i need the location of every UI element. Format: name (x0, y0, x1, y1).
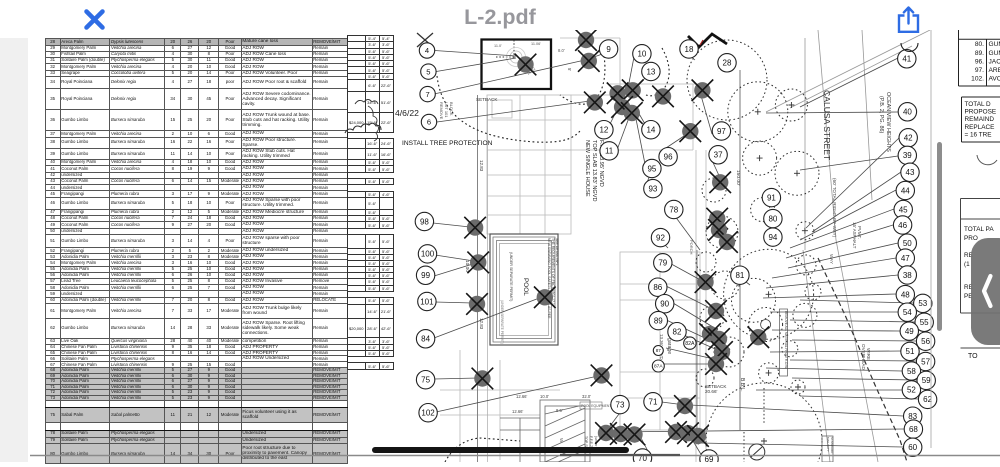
canopy (724, 249, 814, 339)
pool equip box (580, 402, 602, 409)
svg-text:68: 68 (909, 425, 918, 434)
canopy (791, 380, 805, 394)
tree tag 90 (656, 295, 674, 313)
tree tag 39 (898, 146, 916, 164)
removed tree (578, 32, 594, 48)
tree tag 70 (633, 449, 651, 467)
tree tag 60 (904, 438, 922, 456)
svg-text:TOTAL PA: TOTAL PA (964, 226, 994, 233)
property line east (739, 70, 741, 430)
svg-text:81: 81 (735, 271, 744, 280)
svg-text:87A: 87A (654, 364, 663, 370)
svg-text:84: 84 (421, 335, 430, 344)
canopy (775, 151, 819, 195)
pool outer (490, 234, 558, 345)
svg-text:82A: 82A (685, 341, 695, 347)
svg-text:89: 89 (654, 316, 663, 325)
canopy (700, 306, 724, 330)
svg-text:60: 60 (908, 443, 917, 452)
svg-text:96.: 96. (975, 58, 984, 65)
close button X (82, 7, 107, 32)
svg-text:REMOVE ALL MATERIAL FROM R.O.W: REMOVE ALL MATERIAL FROM R.O.W. (784, 311, 788, 369)
tree tag 99 (416, 266, 434, 284)
removed tree (690, 428, 706, 444)
svg-text:REMAIND: REMAIND (965, 116, 995, 123)
svg-text:38: 38 (903, 271, 912, 280)
svg-text:90: 90 (660, 300, 669, 309)
tree tag 94 (764, 228, 782, 246)
svg-text:4: 4 (425, 46, 429, 55)
svg-text:28: 28 (723, 59, 732, 68)
tree tag 5 (421, 64, 436, 79)
svg-text:7: 7 (425, 90, 429, 99)
top bar (0, 0, 1000, 38)
removed tree (708, 356, 724, 372)
tree tag 98 (415, 212, 433, 230)
tree tag 91 (762, 188, 780, 206)
tree tag 81 (731, 266, 749, 284)
tree tag 89 (649, 311, 667, 329)
row edge (803, 38, 830, 462)
svg-text:20.66': 20.66' (705, 389, 717, 394)
svg-text:93: 93 (648, 184, 657, 193)
tree tag 52 (902, 381, 920, 399)
svg-text:(P.B. 2, PG. 86): (P.B. 2, PG. 86) (878, 96, 884, 134)
svg-text:(UNDER SEPARATE PERMIT): (UNDER SEPARATE PERMIT) (500, 300, 504, 344)
tree tag 44 (896, 181, 914, 199)
tree tag 40 (898, 103, 916, 121)
totals box (962, 97, 1000, 142)
tree tag 87 (653, 346, 663, 356)
svg-text:32.0': 32.0' (582, 394, 591, 399)
removed tree (668, 424, 684, 440)
svg-text:W.: W. (559, 438, 564, 443)
svg-text:WAY: WAY (829, 254, 834, 264)
svg-text:PVMT.: PVMT. (857, 226, 862, 239)
canopy (696, 369, 714, 387)
tree tag 79 (654, 254, 672, 272)
svg-text:52: 52 (907, 386, 916, 395)
svg-text:12.83: 12.83 (479, 160, 484, 172)
setback line (477, 95, 479, 462)
svg-text:GUM: GUM (989, 41, 1000, 48)
svg-text:58: 58 (907, 367, 916, 376)
canopy (728, 82, 788, 142)
tree tag 92 (651, 228, 669, 246)
removed tree (694, 82, 710, 98)
removed tree (655, 88, 671, 104)
tree tag 56 (916, 332, 934, 350)
removed tree (598, 425, 614, 441)
svg-text:150.00': 150.00' (735, 170, 741, 186)
tree tag 95 (643, 159, 661, 177)
svg-text:98: 98 (420, 217, 429, 226)
svg-text:12.66': 12.66' (516, 394, 527, 399)
cut tag top (901, 43, 918, 52)
svg-text:INSTALL TREE PROTECTION: INSTALL TREE PROTECTION (402, 140, 493, 147)
svg-text:PROPOSE: PROPOSE (965, 109, 997, 116)
removed tree (581, 53, 597, 69)
removed tree (587, 94, 603, 110)
tree tag 13 (642, 62, 660, 80)
canopy (751, 198, 775, 222)
terrace (500, 400, 590, 462)
tree tag 68 (904, 420, 922, 438)
tree tag 50 (898, 234, 916, 252)
canopy (696, 252, 716, 272)
tree tag 42 (899, 129, 917, 147)
tree tag 75 (416, 371, 434, 389)
svg-text:18: 18 (685, 45, 694, 54)
share icon (897, 5, 920, 34)
svg-text:13: 13 (646, 67, 655, 76)
removed tree (469, 296, 485, 312)
tree tag 101 (418, 292, 436, 310)
removed tree (682, 123, 698, 139)
tree tag 87A (652, 360, 664, 372)
svg-text:(60' TOTAL RIGHT-OF-WAY): (60' TOTAL RIGHT-OF-WAY) (832, 178, 837, 238)
svg-text:86: 86 (653, 283, 662, 292)
sheet border (930, 30, 932, 448)
svg-text:AVO: AVO (989, 76, 1000, 83)
svg-text:TOP SLAB 13.83' NGVD: TOP SLAB 13.83' NGVD (591, 140, 597, 202)
canopy (749, 308, 783, 342)
pool mid (493, 237, 555, 342)
svg-text:6: 6 (427, 118, 431, 127)
svg-text:TOTAL D: TOTAL D (965, 101, 992, 108)
tree tag 47 (896, 249, 914, 267)
lot line (487, 98, 489, 462)
tree tag 82A (684, 337, 696, 349)
svg-text:80: 80 (768, 214, 777, 223)
tree tag 10 (633, 45, 651, 63)
canopy (775, 89, 807, 121)
svg-text:87: 87 (656, 348, 662, 353)
new house thick outline (482, 40, 552, 90)
svg-text:9: 9 (606, 45, 611, 54)
svg-text:JAC: JAC (989, 58, 1000, 65)
svg-text:46: 46 (898, 221, 907, 230)
removed tree (470, 254, 486, 270)
canopy (732, 278, 776, 322)
tree tag 46 (893, 216, 911, 234)
svg-text:92: 92 (656, 233, 665, 242)
protection fence (437, 48, 669, 462)
street edge 2 (766, 30, 930, 200)
tree tag 41 (898, 50, 916, 68)
svg-text:55: 55 (920, 318, 929, 327)
svg-text:95: 95 (647, 164, 656, 173)
svg-text:42: 42 (904, 134, 913, 143)
removed tree (593, 367, 609, 383)
svg-text:97: 97 (717, 127, 726, 136)
svg-text:40: 40 (903, 108, 912, 117)
left gray app background (0, 38, 28, 462)
garage footprint faint (620, 252, 700, 430)
small crosses (755, 102, 808, 444)
tree tag 37 (709, 146, 727, 164)
svg-text:PRO: PRO (964, 235, 978, 242)
svg-text:50: 50 (903, 239, 912, 248)
tree tag 38 (898, 266, 916, 284)
canopy (796, 255, 816, 275)
svg-text:SEE DETAIL /SP1: SEE DETAIL /SP1 (555, 238, 559, 266)
canopy (796, 222, 814, 240)
interior dots (496, 40, 516, 58)
canopy (702, 178, 726, 202)
cut arc right (977, 155, 997, 165)
svg-text:97.: 97. (975, 67, 984, 74)
svg-text:96: 96 (664, 153, 673, 162)
street edge (818, 30, 878, 462)
svg-text:LOT 101: LOT 101 (444, 102, 449, 118)
svg-text:37: 37 (714, 151, 723, 160)
removed tree (697, 274, 713, 290)
right total box (961, 199, 1000, 349)
svg-text:PORCH: PORCH (689, 240, 694, 255)
tree tag 78 (665, 200, 683, 218)
match line (30, 455, 1000, 457)
right legend lines (959, 30, 1000, 86)
svg-text:REMOVE: REMOVE (439, 102, 444, 120)
pool inner (497, 241, 552, 339)
tree survey table (45, 38, 349, 464)
svg-text:51: 51 (906, 347, 915, 356)
svg-text:49: 49 (905, 327, 914, 336)
row dashed line (818, 258, 907, 462)
tree tag 102 (419, 404, 437, 422)
svg-text:NEW SINGLE HOUSE: NEW SINGLE HOUSE (584, 140, 590, 197)
svg-text:12: 12 (599, 126, 608, 135)
tree tag 48 (896, 285, 914, 303)
svg-text:POOL: POOL (522, 278, 529, 296)
tree tag 71 (644, 393, 662, 411)
canopy (687, 40, 767, 120)
cut tree top-left (417, 33, 433, 47)
canopy (782, 341, 798, 357)
tree tag 28 (718, 54, 736, 72)
tree tag 83 (904, 407, 922, 425)
svg-text:41: 41 (902, 55, 911, 64)
mitigation measurement columns (347, 35, 394, 370)
svg-text:(1: (1 (964, 261, 970, 268)
svg-text:garage: garage (666, 338, 672, 354)
svg-text:(UNDER SEPARATE PERMIT): (UNDER SEPARATE PERMIT) (509, 252, 513, 301)
tree tag 49 (900, 322, 918, 340)
removal note box (780, 309, 788, 376)
horizontal scroll indicator (372, 447, 629, 454)
svg-text:80.: 80. (975, 41, 984, 48)
svg-text:B.B.L.: B.B.L. (739, 378, 745, 392)
svg-text:8.5': 8.5' (556, 408, 563, 413)
removed tree (702, 326, 718, 342)
removed tree (711, 331, 727, 347)
tree tag 14 (642, 121, 660, 139)
svg-text:12.66': 12.66' (512, 409, 523, 414)
svg-text:75: 75 (421, 376, 430, 385)
svg-text:54: 54 (903, 308, 912, 317)
removed tree (614, 99, 630, 115)
tree tag 45 (894, 200, 912, 218)
svg-text:56: 56 (921, 337, 930, 346)
removed tree (712, 174, 728, 190)
svg-text:102.: 102. (971, 76, 984, 83)
tree tag 55 (915, 313, 933, 331)
svg-text:71: 71 (649, 398, 658, 407)
svg-text:48: 48 (901, 290, 910, 299)
svg-text:11.06': 11.06' (531, 42, 541, 46)
svg-text:82: 82 (673, 328, 682, 337)
pool inner2 (500, 244, 549, 336)
tree tag 97 (712, 122, 730, 140)
svg-text:CALUSA STREET: CALUSA STREET (822, 90, 832, 161)
svg-text:100: 100 (421, 250, 435, 259)
svg-text:39: 39 (903, 151, 912, 160)
canopy (743, 141, 777, 175)
removed tree (613, 426, 629, 442)
removed tree (467, 219, 483, 235)
tree tag 7 (420, 86, 435, 101)
svg-text:4/6/22: 4/6/22 (395, 108, 419, 118)
misc faint (560, 38, 700, 150)
dotted vline (744, 388, 764, 462)
removed tree (474, 370, 490, 386)
svg-text:47: 47 (901, 254, 910, 263)
svg-text:WIRE: WIRE (866, 348, 871, 360)
canopy (711, 271, 739, 299)
tree tag 69 (700, 450, 718, 467)
removed tree (537, 289, 553, 305)
removed tree (609, 85, 625, 101)
removed tree (711, 222, 727, 238)
tree tag 53 (914, 294, 932, 312)
svg-text:78: 78 (669, 205, 678, 214)
removed tree (624, 105, 640, 121)
tree tag 84 (416, 330, 434, 348)
tree tag 82 (668, 323, 686, 341)
svg-text:11.0': 11.0' (494, 44, 502, 48)
tree tag 93 (644, 179, 662, 197)
svg-text:5: 5 (426, 67, 430, 76)
svg-text:79: 79 (658, 259, 667, 268)
removed tree (626, 426, 642, 442)
tree tag 9 (599, 40, 617, 58)
svg-text:57: 57 (921, 357, 930, 366)
tree tag 58 (902, 362, 920, 380)
svg-text:NEW SWIMMING POOL SAFETY BARRI: NEW SWIMMING POOL SAFETY BARRIER AS PER (547, 238, 551, 319)
svg-text:102: 102 (421, 409, 435, 418)
svg-text:10.0': 10.0' (540, 394, 549, 399)
utility symbol (749, 444, 765, 460)
svg-text:5': 5' (567, 68, 572, 71)
tree tag 4 (419, 43, 434, 58)
svg-text:91: 91 (767, 193, 776, 202)
svg-text:43: 43 (906, 168, 915, 177)
tree tag 57 (916, 352, 934, 370)
svg-text:14: 14 (646, 126, 655, 135)
svg-text:99: 99 (421, 271, 430, 280)
tree tag 96 (659, 148, 677, 166)
svg-text:8.0': 8.0' (558, 48, 565, 53)
tree tag 54 (898, 303, 916, 321)
removed tree (709, 210, 725, 226)
svg-text:89.: 89. (975, 50, 984, 57)
tree tag 86 (649, 278, 667, 296)
tree tag 80 (764, 209, 782, 227)
removed tree (680, 425, 696, 441)
svg-text:44: 44 (901, 186, 910, 195)
svg-text:53: 53 (918, 299, 927, 308)
removed tree (750, 329, 766, 345)
tree tag 51 (901, 342, 919, 360)
svg-text:45: 45 (899, 205, 908, 214)
removed tree (625, 82, 641, 98)
svg-text:TO: TO (968, 353, 978, 360)
svg-text:OVERHEAD: OVERHEAD (861, 344, 866, 370)
removed tree (719, 234, 735, 250)
svg-text:POOL EQUIPMENT: POOL EQUIPMENT (581, 404, 611, 408)
svg-text:GUM: GUM (989, 50, 1000, 57)
vertical scroll indicator (937, 142, 942, 331)
page nav chevron button (971, 238, 1000, 345)
mail standard (822, 436, 833, 462)
canopy (793, 303, 817, 327)
tree tag 12 (595, 121, 613, 139)
svg-text:94: 94 (768, 233, 777, 242)
svg-text:10: 10 (637, 50, 646, 59)
svg-text:11: 11 (605, 147, 614, 156)
canopy (805, 284, 821, 300)
revision cloud (345, 123, 381, 133)
svg-text:SETBACK: SETBACK (476, 97, 498, 102)
svg-text:REPLACE: REPLACE (965, 124, 995, 131)
canopy (714, 337, 744, 367)
tree tag 11 (600, 142, 618, 160)
removed tree (708, 303, 724, 319)
tree tag 62 (918, 390, 936, 408)
tree tag 43 (901, 163, 919, 181)
bold zigzag mark (688, 34, 727, 47)
house footprint faint (487, 95, 571, 234)
tree tag 73 (611, 395, 629, 413)
tree tag 100 (418, 245, 436, 263)
removed tree (517, 56, 533, 72)
canopy (759, 363, 779, 383)
svg-text:OCEAN VIEW HEIGHTS: OCEAN VIEW HEIGHTS (885, 92, 891, 152)
svg-text:73: 73 (616, 400, 625, 409)
svg-text:= 16 TRE: = 16 TRE (965, 131, 992, 138)
tree tag 59 (917, 371, 935, 389)
svg-text:15' ASPHALT: 15' ASPHALT (852, 222, 857, 249)
tree tag 6 (421, 114, 436, 129)
canopy (706, 216, 738, 248)
tree tag 18 (680, 40, 698, 58)
svg-text:59: 59 (922, 376, 931, 385)
svg-text:101: 101 (420, 297, 434, 306)
canopy (706, 383, 822, 467)
svg-text:ARE: ARE (989, 67, 1000, 74)
removed tree (677, 398, 693, 414)
removed tree (714, 344, 730, 360)
svg-text:MAIL/CITY: MAIL/CITY (826, 437, 830, 452)
